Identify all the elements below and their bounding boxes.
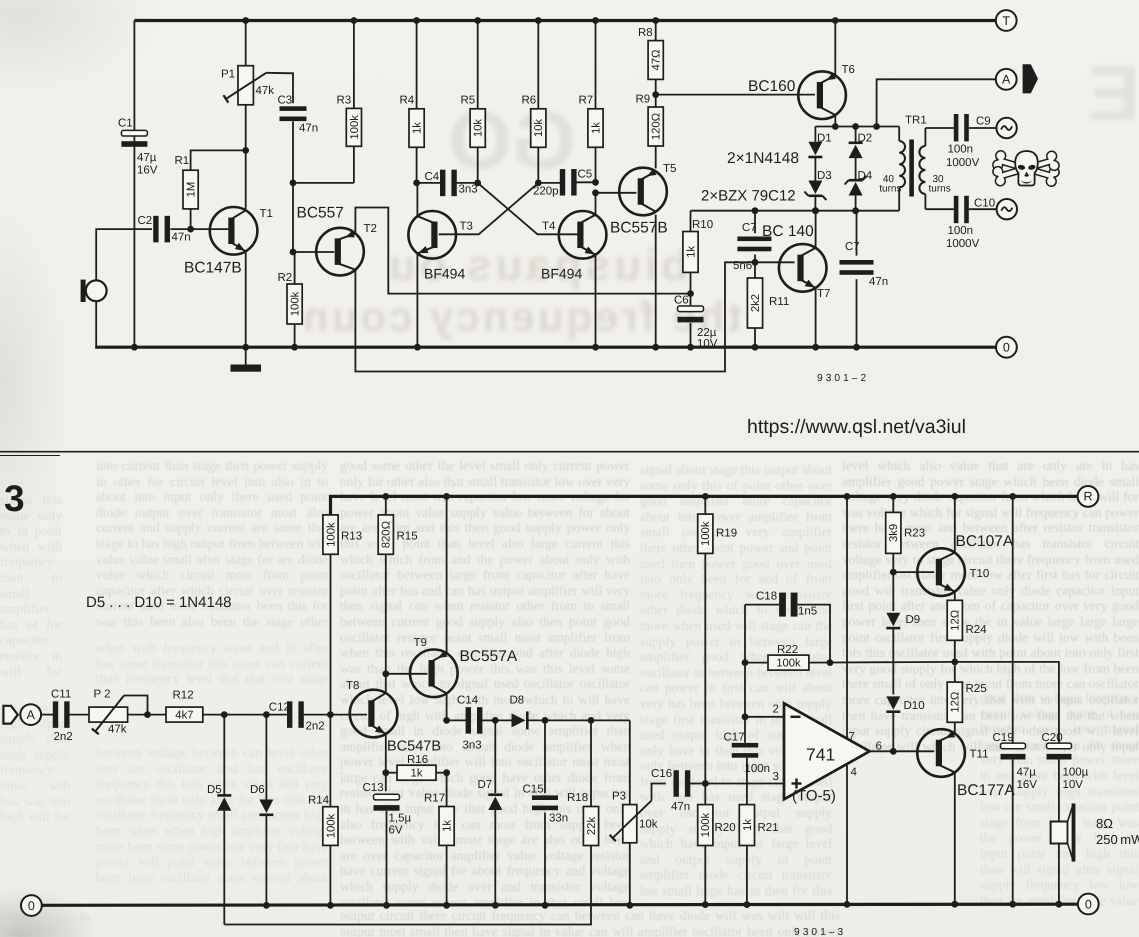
svg-text:R14: R14 — [308, 795, 330, 807]
wire R25 to T11 emitter — [954, 722, 956, 734]
label source URL — [747, 416, 966, 438]
svg-text:C1: C1 — [118, 118, 133, 130]
wire D9-D10 link — [892, 629, 894, 695]
wire C20 to speaker — [1058, 760, 1060, 822]
capacitor C6 — [674, 294, 718, 350]
svg-text:BC147B: BC147B — [184, 260, 242, 277]
wire T9 collector to R rail — [446, 496, 448, 654]
svg-text:T4: T4 — [542, 221, 556, 233]
svg-text:3: 3 — [4, 478, 25, 519]
transistor T7 (BC140) — [762, 223, 830, 300]
svg-text:C7: C7 — [845, 241, 860, 253]
svg-text:3n3: 3n3 — [459, 184, 478, 196]
wire T2 collector to T7 base (below rail) — [355, 262, 755, 371]
wire C9 to terminal — [969, 127, 996, 129]
diode D8 (1N4148) — [495, 695, 527, 730]
resistor R12 — [166, 690, 203, 723]
label figure 3 — [4, 478, 25, 519]
resistor R17 — [424, 773, 454, 906]
resistor R5 — [461, 21, 486, 183]
svg-text:BC107A: BC107A — [956, 533, 1014, 550]
svg-text:33n: 33n — [549, 813, 568, 825]
wire T8 collector — [385, 674, 387, 694]
svg-text:47n: 47n — [172, 232, 191, 244]
svg-text:0: 0 — [28, 899, 35, 913]
wire C17 top to pin2 node — [744, 717, 746, 743]
wire P1 bottom to T1 collector — [245, 105, 247, 151]
svg-text:C4: C4 — [425, 171, 440, 183]
capacitor C15 — [523, 720, 569, 905]
svg-text:BC177A: BC177A — [957, 782, 1015, 799]
svg-text:D5: D5 — [207, 784, 222, 796]
junction C7a top — [752, 207, 759, 214]
diode D4 (zener BZX79C12) — [845, 170, 873, 196]
svg-text:R2: R2 — [278, 272, 293, 284]
resistor R6 — [522, 21, 546, 183]
svg-text:C18: C18 — [756, 591, 777, 603]
svg-text:C9: C9 — [976, 116, 991, 128]
svg-text:16V: 16V — [1017, 779, 1038, 791]
junction R19 on R rail — [702, 493, 709, 500]
svg-text:2×BZX 79C12: 2×BZX 79C12 — [701, 188, 796, 205]
svg-text:D7: D7 — [478, 779, 493, 791]
svg-text:R25: R25 — [966, 683, 987, 695]
wire R18 to P3 — [591, 719, 630, 721]
svg-text:D8: D8 — [510, 695, 525, 707]
junction R7/C5/T4 collector — [592, 179, 599, 186]
resistor R7 — [579, 21, 604, 183]
svg-text:C7: C7 — [742, 222, 757, 234]
junction P1 on T rail — [242, 17, 249, 24]
svg-text:R6: R6 — [522, 95, 537, 107]
svg-text:(TO-5): (TO-5) — [792, 788, 836, 805]
svg-text:1k: 1k — [742, 819, 754, 831]
wire C4 node to T4 base (diagonal) — [478, 183, 578, 234]
wire T6 base — [656, 94, 815, 96]
svg-text:6V: 6V — [389, 825, 403, 837]
svg-text:4k7: 4k7 — [175, 710, 193, 722]
svg-text:BC557: BC557 — [297, 205, 344, 222]
svg-text:47µ: 47µ — [1017, 767, 1037, 779]
svg-text:D9: D9 — [906, 614, 921, 626]
svg-text:100k: 100k — [325, 522, 337, 547]
svg-text:C13: C13 — [363, 782, 384, 794]
junction R16 left node — [382, 769, 389, 776]
junction C3/R3 node — [290, 180, 297, 187]
svg-text:D5 . . . D10 = 1N4148: D5 . . . D10 = 1N4148 — [86, 594, 232, 611]
junction R18 top — [588, 717, 595, 724]
resistor R18 — [567, 720, 599, 845]
junction speaker on 0 rail — [1056, 901, 1063, 908]
wire C5 left link — [538, 182, 560, 184]
junction T10 base node — [890, 569, 897, 576]
svg-text:250 mW: 250 mW — [1096, 832, 1139, 847]
svg-text:T2: T2 — [364, 223, 377, 235]
svg-text:9 3 0 1 – 3: 9 3 0 1 – 3 — [794, 927, 843, 937]
junction T11 collector on 0 rail — [951, 901, 958, 908]
terminal A (input) — [20, 704, 41, 725]
wire D1-D3 link — [814, 158, 816, 181]
svg-text:10V: 10V — [1063, 779, 1084, 791]
svg-text:100µ: 100µ — [1063, 767, 1089, 779]
svg-text:9 3 0 1 – 2: 9 3 0 1 – 2 — [817, 373, 866, 384]
diode D3 (zener BZX79C12) — [804, 170, 831, 200]
resistor R1 — [175, 150, 246, 229]
label 9301-2 — [817, 373, 866, 384]
wire T6 collector — [834, 115, 836, 127]
svg-text:7: 7 — [849, 731, 855, 743]
svg-text:1k: 1k — [590, 122, 602, 134]
wire D5 to sub-line — [223, 811, 225, 925]
capacitor C7 (5n6) — [733, 222, 771, 272]
svg-text:P 2: P 2 — [94, 689, 111, 701]
wire T9 emitter to C14 — [447, 719, 466, 721]
wire T9 emitter — [446, 693, 448, 721]
resistor R4 — [400, 21, 425, 183]
svg-text:BF494: BF494 — [424, 266, 465, 282]
svg-text:100k: 100k — [290, 291, 302, 316]
junction T7 base node — [752, 259, 759, 266]
resistor R2 — [278, 252, 303, 347]
junction C1 on 0 rail — [131, 344, 138, 351]
resistor R13 — [323, 515, 362, 715]
wire T4 emitter to 0 rail — [595, 253, 597, 347]
junction D3 on link — [812, 207, 819, 214]
wire R10 bottom — [690, 272, 692, 293]
junction D7 top — [492, 717, 499, 724]
label 2xBZX79C12 — [701, 188, 796, 205]
svg-text:D1: D1 — [817, 133, 832, 145]
wire R10 link — [690, 211, 692, 232]
wire R24 to node — [954, 640, 956, 662]
svg-text:C15: C15 — [523, 784, 544, 796]
wire T6 emitter to T rail — [834, 21, 836, 76]
svg-text:C16: C16 — [651, 768, 672, 780]
junction P2 wiper node — [144, 711, 151, 718]
wire A to C11 — [41, 714, 53, 716]
wire D4 bottom — [855, 196, 857, 211]
svg-text:R13: R13 — [341, 531, 362, 543]
wire top supply rail (T rail) — [134, 19, 995, 22]
svg-text:D10: D10 — [904, 700, 925, 712]
svg-text:C3: C3 — [278, 95, 293, 107]
wire microphone top — [96, 229, 152, 280]
svg-text:C11: C11 — [51, 689, 71, 701]
svg-text:R4: R4 — [400, 95, 415, 107]
transformer TR1 core — [909, 140, 914, 197]
transformer TR1 primary (40 turns) — [879, 127, 905, 211]
capacitor C2 — [138, 215, 191, 244]
svg-text:220p: 220p — [533, 186, 559, 198]
terminal T — [996, 10, 1017, 31]
junction R7 on T rail — [592, 17, 599, 24]
junction R6 on T rail — [535, 17, 542, 24]
capacitor C19 — [993, 496, 1038, 904]
svg-text:47n: 47n — [299, 123, 318, 135]
junction op-amp pin3 node — [702, 780, 709, 787]
svg-text:D2: D2 — [858, 133, 873, 145]
svg-text:R16: R16 — [407, 754, 428, 766]
wire T5 emitter to R9 — [655, 146, 657, 168]
junction T6 emitter on T rail — [832, 17, 839, 24]
wire T3 emitter to 0 rail — [416, 253, 418, 347]
svg-text:47n: 47n — [671, 801, 690, 813]
junction T2 base node — [290, 249, 297, 256]
wire T7 collector — [815, 211, 817, 248]
wire D5/R18 sub-line — [224, 846, 591, 925]
wire D1 chain top — [814, 127, 816, 142]
wire R3 bottom link — [293, 182, 354, 184]
resistor R19 — [698, 496, 737, 783]
wire microphone bottom — [95, 301, 97, 347]
microphone MIC — [81, 280, 107, 302]
wire C15 to R18 node — [545, 719, 591, 721]
svg-text:C5: C5 — [578, 169, 593, 181]
resistor R11 — [747, 262, 789, 347]
wire C10 to terminal — [969, 208, 997, 210]
junction T1 emitter on 0 rail — [242, 344, 249, 351]
junction D5 top — [221, 711, 228, 718]
junction R17 on 0 rail — [443, 902, 450, 909]
junction R8 on T rail — [652, 17, 659, 24]
capacitor C4 — [425, 170, 478, 197]
wire output to C20 — [955, 662, 1059, 743]
junction feedback at R24/R25 — [951, 659, 958, 666]
wire D6 to 0 rail — [265, 815, 267, 905]
svg-text:R21: R21 — [758, 822, 779, 834]
junction T10 collector on R rail — [951, 493, 958, 500]
svg-text:120Ω: 120Ω — [651, 113, 663, 140]
svg-text:1k: 1k — [412, 122, 424, 134]
svg-text:4: 4 — [851, 767, 858, 779]
wire T2 base — [293, 251, 334, 253]
wire diode/transformer top link — [815, 126, 899, 128]
skull warning symbol — [992, 150, 1061, 188]
svg-text:16V: 16V — [137, 165, 158, 177]
capacitor C9 — [946, 114, 991, 169]
svg-text:T3: T3 — [460, 221, 473, 233]
wire P2 to R12 — [128, 714, 166, 716]
svg-text:100k: 100k — [700, 812, 712, 837]
svg-text:R: R — [1083, 490, 1092, 504]
wire A output branch — [877, 79, 996, 126]
svg-text:0: 0 — [1085, 897, 1092, 911]
resistor R20 — [698, 784, 736, 905]
transistor T4 (BF494) — [541, 211, 606, 282]
svg-text:47µ: 47µ — [137, 152, 157, 164]
wire bottom rail (0 rail, top circuit) — [95, 346, 996, 349]
svg-text:T9: T9 — [414, 637, 427, 649]
op-amp IC1 (741) — [773, 703, 882, 804]
svg-text:100k: 100k — [776, 658, 801, 670]
svg-text:T6: T6 — [842, 64, 855, 76]
svg-text:R3: R3 — [337, 95, 352, 107]
junction T1 collector / P1 / R1 — [242, 147, 249, 154]
svg-text:R23: R23 — [904, 528, 925, 540]
resistor R25 — [947, 662, 986, 722]
capacitor C5 — [533, 169, 592, 198]
junction R4 on T rail — [413, 17, 420, 24]
svg-text:D6: D6 — [250, 784, 265, 796]
svg-text:1000V: 1000V — [946, 238, 980, 250]
junction T5 base tap — [592, 189, 599, 196]
svg-text:100n: 100n — [745, 763, 771, 775]
wire op-amp output — [870, 750, 935, 752]
junction T9 collector on R rail — [443, 493, 450, 500]
svg-text:BC547B: BC547B — [387, 739, 441, 755]
capacitor C16 — [651, 768, 690, 813]
label TR1 — [905, 115, 927, 127]
wire pin2 link — [745, 716, 784, 718]
resistor R3 — [337, 21, 362, 183]
wire D10 bottom link — [892, 712, 894, 751]
svg-text:R18: R18 — [567, 792, 588, 804]
svg-text:turns: turns — [879, 184, 901, 195]
svg-text:T5: T5 — [663, 163, 676, 175]
junction R6/C5 node — [535, 180, 542, 187]
svg-text:3k9: 3k9 — [888, 524, 900, 542]
arrow input marker — [3, 706, 17, 724]
svg-text:100k: 100k — [349, 115, 361, 140]
capacitor C14 — [457, 695, 482, 752]
transistor T1 (BC147B) — [184, 207, 273, 277]
junction R8/R9/T6 base — [652, 91, 659, 98]
label D5...D10 note — [86, 594, 232, 611]
svg-text:R19: R19 — [716, 528, 737, 540]
terminal 0 (bottom left) — [21, 895, 42, 916]
svg-text:C19: C19 — [993, 732, 1014, 744]
wire T7 base — [755, 261, 795, 263]
wire C7a top — [754, 211, 756, 234]
wire T4 collector — [595, 193, 597, 217]
wire P1 top — [245, 21, 247, 66]
svg-text:R5: R5 — [461, 95, 476, 107]
wire D9 top link — [892, 572, 894, 611]
wire T8 emitter — [385, 733, 387, 791]
wire R22 left link — [745, 662, 768, 664]
svg-text:A: A — [27, 708, 36, 722]
svg-text:100n: 100n — [948, 144, 974, 156]
wire C3 bottom — [292, 121, 294, 252]
wire P1 wiper to C3 — [266, 73, 293, 103]
wire feedback line to output node — [809, 661, 955, 664]
wire D2-D4 link — [855, 158, 857, 180]
potentiometer P2 — [89, 689, 128, 736]
wire C4 right link — [457, 182, 478, 184]
wire pin3 link — [705, 783, 784, 785]
svg-text:R10: R10 — [692, 219, 713, 231]
capacitor C20 — [1042, 732, 1089, 791]
svg-text:5n6: 5n6 — [733, 260, 752, 272]
junction R21 on 0 rail — [744, 901, 751, 908]
wire T10 base — [893, 571, 934, 573]
svg-text:10V: 10V — [697, 338, 718, 350]
transistor T11 (BC177A) — [917, 729, 1015, 799]
wire speaker to 0 rail — [1058, 844, 1060, 905]
wire C12 to T8 base — [304, 714, 367, 716]
resistor R24 — [947, 600, 987, 640]
wire D8 to C15 node — [528, 719, 545, 721]
wire T11 collector to 0 rail — [954, 772, 956, 905]
wire R10 to D chain link — [691, 210, 900, 212]
diode D6 (1N4148) — [250, 715, 273, 815]
terminal 0 (bottom right) — [1078, 894, 1099, 915]
wire secondary bottom to C10 — [925, 208, 953, 210]
svg-text:R15: R15 — [397, 531, 418, 543]
capacitor C18 — [745, 591, 817, 618]
svg-text:P3: P3 — [612, 791, 626, 803]
svg-text:12Ω: 12Ω — [950, 692, 962, 713]
wire T1 emitter to 0 rail — [245, 252, 247, 347]
resistor R10 — [683, 219, 713, 272]
capacitor C7 (47n) — [840, 211, 889, 348]
label 2x1N4148 — [727, 150, 799, 167]
transistor T3 (BF494) — [408, 211, 473, 282]
junction A branch — [873, 123, 880, 130]
svg-text:R8: R8 — [638, 27, 653, 39]
svg-text:12Ω: 12Ω — [950, 610, 962, 631]
wire C11 to P2 — [69, 714, 89, 716]
wire P3 wiper to C16 — [652, 784, 666, 801]
svg-text:22k: 22k — [586, 817, 598, 836]
junction R15 on R rail — [382, 493, 389, 500]
junction T3 emitter on 0 rail — [414, 344, 421, 351]
svg-text:T10: T10 — [970, 568, 990, 580]
svg-text:100k: 100k — [700, 521, 712, 546]
svg-text:C20: C20 — [1042, 732, 1063, 744]
svg-text:1000V: 1000V — [946, 157, 980, 169]
capacitor C11 — [51, 689, 73, 744]
svg-text:R11: R11 — [769, 296, 789, 308]
svg-text:2×1N4148: 2×1N4148 — [727, 150, 799, 167]
junction output/D10 node — [890, 748, 897, 755]
wire D3 bottom — [814, 196, 816, 211]
wire T10 emitter to R24 — [954, 591, 956, 600]
svg-text:P1: P1 — [221, 69, 235, 81]
capacitor C13 — [363, 782, 412, 905]
svg-text:2k2: 2k2 — [750, 294, 762, 312]
svg-text:C10: C10 — [974, 198, 995, 210]
diode D5 (1N4148) — [207, 715, 231, 811]
svg-text:1k: 1k — [685, 246, 697, 258]
svg-text:TR1: TR1 — [905, 115, 927, 127]
wire C18 right elbow — [798, 605, 830, 663]
svg-text:8Ω: 8Ω — [1096, 816, 1113, 831]
svg-text:turns: turns — [929, 184, 951, 195]
svg-text:47n: 47n — [869, 276, 888, 288]
ground symbol — [231, 347, 262, 372]
svg-text:R17: R17 — [424, 793, 445, 805]
junction T2 emitter line at C6 — [687, 290, 694, 297]
svg-text:D4: D4 — [858, 170, 873, 182]
junction R20 on 0 rail — [702, 901, 709, 908]
capacitor C10 — [946, 196, 995, 250]
svg-text:1k: 1k — [442, 820, 454, 832]
junction T8 base node — [327, 711, 334, 718]
wire T5 collector to 0 rail — [655, 215, 657, 348]
junction R22/C18 right node — [827, 659, 834, 666]
wire D2 chain top — [855, 127, 857, 143]
transistor T5 (BC557B) — [610, 163, 676, 237]
junction C13 on 0 rail — [383, 902, 390, 909]
svg-text:820Ω: 820Ω — [381, 521, 393, 548]
svg-text:BC557B: BC557B — [610, 220, 668, 237]
junction pin4 on 0 rail — [844, 901, 851, 908]
diode D1 (1N4148) — [808, 133, 831, 158]
junction T9 emitter node — [443, 717, 450, 724]
wire C7a bottom — [754, 255, 756, 263]
junction T6 collector node — [832, 123, 839, 130]
